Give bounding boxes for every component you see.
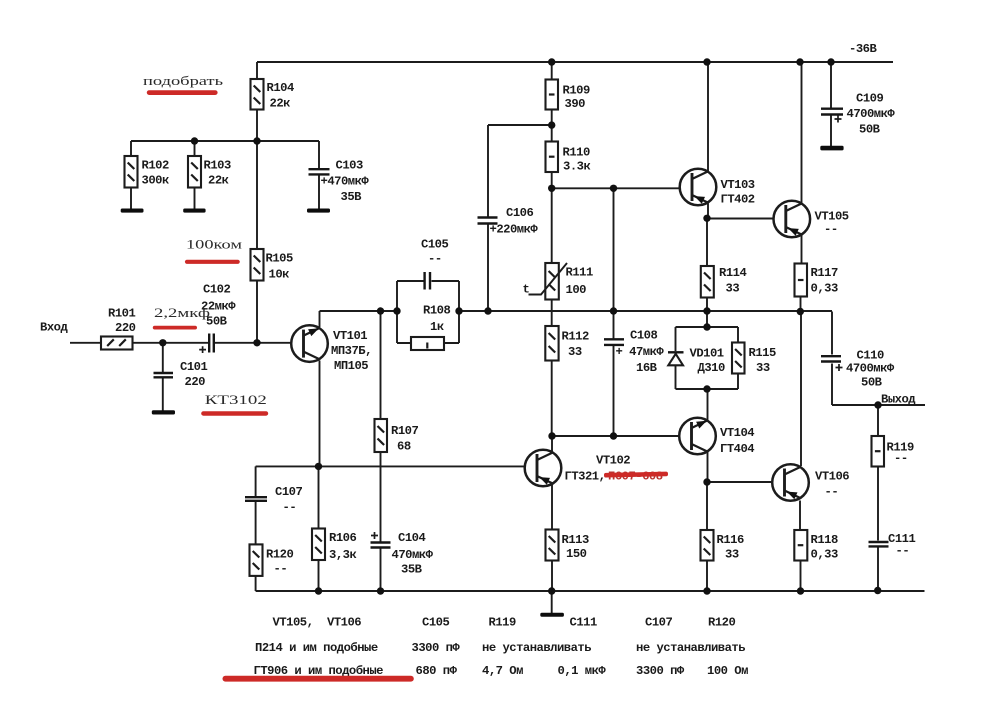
- svg-text:VT105, VT106: VT105, VT106: [273, 616, 362, 630]
- svg-text:100ком: 100ком: [186, 237, 242, 251]
- wire R108 C105 loop: [397, 281, 459, 343]
- svg-text:--: --: [283, 501, 297, 515]
- wire R104 bottom to node: [256, 110, 258, 142]
- ground C103: [307, 209, 330, 213]
- svg-text:не устанавливать: не устанавливать: [482, 641, 591, 655]
- svg-text:R119: R119: [489, 616, 516, 630]
- svg-text:50В: 50В: [859, 123, 881, 137]
- svg-text:C105: C105: [422, 616, 449, 630]
- svg-text:C103: C103: [336, 159, 363, 173]
- resistor R112: [545, 326, 558, 361]
- wire R116 leads: [706, 482, 708, 591]
- wire R111 to R112: [551, 300, 553, 327]
- resistor R119: [872, 436, 885, 467]
- wire C104 bottom: [380, 549, 382, 592]
- svg-text:--: --: [825, 485, 839, 499]
- svg-text:3.3к: 3.3к: [563, 160, 590, 174]
- wire R104 top to rail: [256, 62, 258, 79]
- wire VT103 collector to rail: [707, 62, 709, 171]
- wire C103 leads: [318, 141, 320, 210]
- wire R110 bottom: [551, 172, 553, 188]
- node R114 bottom: [703, 307, 710, 314]
- ground R102: [121, 209, 144, 213]
- svg-text:300к: 300к: [142, 174, 169, 188]
- svg-text:3300 пФ: 3300 пФ: [412, 641, 461, 655]
- svg-text:1к: 1к: [430, 320, 444, 334]
- svg-text:68: 68: [397, 440, 411, 454]
- resistor R108: [411, 337, 444, 350]
- svg-text:4700мкФ: 4700мкФ: [846, 362, 895, 376]
- wire line y=482 to VT106 base: [707, 481, 772, 483]
- wire R109 R110 between: [551, 110, 553, 142]
- resistor R116: [701, 530, 714, 561]
- svg-text:R115: R115: [749, 346, 776, 360]
- svg-text:R117: R117: [811, 266, 838, 280]
- wire R111 top: [551, 188, 553, 263]
- wire R107 leads: [380, 311, 382, 542]
- wire VT101 collector up: [319, 311, 321, 327]
- svg-text:2,2мкф: 2,2мкф: [154, 306, 210, 320]
- svg-text:VT106: VT106: [815, 470, 849, 484]
- svg-text:R109: R109: [563, 84, 590, 98]
- wire VT103 emitter down: [707, 204, 709, 219]
- node rail VT105: [796, 58, 803, 65]
- resistor R118: [794, 530, 807, 561]
- wire VT105 base line: [707, 218, 774, 220]
- ground C109: [820, 146, 843, 151]
- wire R119 leads: [877, 405, 879, 541]
- svg-text:C111: C111: [570, 616, 597, 630]
- svg-text:R108: R108: [423, 304, 450, 318]
- svg-text:C108: C108: [630, 329, 657, 343]
- node VT103 emitter: [703, 215, 710, 222]
- svg-text:390: 390: [565, 97, 586, 111]
- node VT101 emitter: [315, 463, 322, 470]
- svg-text:ГТ402: ГТ402: [721, 193, 755, 207]
- node VT102 collector: [548, 432, 555, 439]
- svg-text:3300 пФ: 3300 пФ: [636, 664, 685, 678]
- node C106 bottom: [484, 307, 491, 314]
- node rail R118: [797, 587, 804, 594]
- wire VT102 base line y=466: [256, 465, 526, 467]
- svg-text:C110: C110: [857, 349, 884, 363]
- wire C111 bottom: [877, 548, 879, 591]
- wire VT102 ground stub: [551, 591, 553, 613]
- svg-text:R118: R118: [811, 533, 838, 547]
- wire mid line y=311 left part: [320, 310, 398, 312]
- svg-text:VT102: VT102: [596, 454, 630, 468]
- node C108 mid: [610, 307, 617, 314]
- wire C102 to VT101 base: [215, 342, 292, 344]
- node VD101 top: [703, 323, 710, 330]
- resistor R114: [701, 266, 714, 298]
- svg-text:100 Ом: 100 Ом: [707, 664, 748, 678]
- svg-text:R113: R113: [562, 533, 589, 547]
- svg-text:П214 и им подобные: П214 и им подобные: [255, 640, 378, 655]
- resistor R110: [546, 142, 559, 173]
- svg-text:22к: 22к: [208, 174, 229, 188]
- wire VT101 emitter down: [319, 361, 321, 467]
- wire VT104 emitter down: [707, 452, 709, 483]
- svg-text:VT103: VT103: [721, 178, 755, 192]
- capacitor C109: [821, 109, 843, 115]
- svg-text:C102: C102: [203, 283, 230, 297]
- svg-text:50В: 50В: [861, 376, 883, 390]
- wire VT102 collector: [551, 436, 553, 452]
- wire C110 column: [831, 312, 833, 406]
- svg-text:3,3к: 3,3к: [329, 548, 356, 562]
- wire R112 bottom: [551, 361, 553, 437]
- svg-text:C105: C105: [421, 238, 448, 252]
- wire R101 to C102: [133, 342, 209, 344]
- node R108 right: [455, 307, 462, 314]
- svg-text:R103: R103: [204, 159, 231, 173]
- wire R106 leads: [318, 466, 320, 591]
- svg-text:+220мкФ: +220мкФ: [490, 223, 539, 237]
- resistor R103: [188, 156, 201, 188]
- capacitor C111: [869, 542, 889, 546]
- node R107 top: [377, 307, 384, 314]
- wire VT106 collector up: [800, 312, 802, 467]
- wire mid line y=311 right part: [459, 310, 832, 312]
- wire R102 leads: [130, 141, 132, 210]
- transistor VT103: [680, 169, 717, 206]
- wire C109 leads: [830, 62, 832, 146]
- capacitor C106: [478, 218, 498, 224]
- svg-text:C106: C106: [506, 206, 533, 220]
- svg-text:R114: R114: [719, 266, 746, 280]
- svg-text:Вход: Вход: [40, 321, 68, 335]
- node rail R106: [315, 587, 322, 594]
- thermistor R111: [529, 263, 568, 300]
- wire C106 bottom: [487, 225, 489, 312]
- svg-text:VT105: VT105: [815, 210, 849, 224]
- svg-text:4,7 Ом: 4,7 Ом: [482, 664, 523, 678]
- svg-text:ГТ404: ГТ404: [720, 442, 754, 456]
- wire VD101 box outline: [676, 327, 739, 389]
- node C106 top: [548, 121, 555, 128]
- node rail VT103: [703, 58, 710, 65]
- svg-text:0,33: 0,33: [811, 548, 838, 562]
- svg-text:R112: R112: [562, 330, 589, 344]
- svg-text:22к: 22к: [270, 97, 291, 111]
- resistor R120: [250, 544, 263, 576]
- svg-text:подобрать: подобрать: [143, 74, 224, 88]
- svg-text:VT104: VT104: [720, 426, 754, 440]
- wire input to R101: [70, 342, 101, 344]
- svg-text:10к: 10к: [269, 268, 290, 282]
- resistor R102: [125, 156, 138, 188]
- svg-text:ГТ321,: ГТ321,: [565, 470, 606, 484]
- node C101 top: [159, 339, 166, 346]
- capacitor C103: [309, 169, 330, 174]
- svg-text:R120: R120: [708, 616, 735, 630]
- ground C101: [152, 410, 175, 414]
- resistor R106: [312, 529, 325, 561]
- svg-text:100: 100: [566, 283, 587, 297]
- transistor VT102: [525, 450, 562, 487]
- transistor VT104: [679, 418, 716, 455]
- svg-text:--: --: [896, 544, 910, 558]
- ground VT102 emitter: [540, 613, 564, 617]
- capacitor C101: [154, 373, 174, 377]
- node C108 top: [610, 185, 617, 192]
- wire VT106 emitter to R118: [799, 501, 801, 531]
- wire VT105 emitter to R117: [801, 236, 803, 264]
- node rail C104: [377, 587, 384, 594]
- svg-text:R105: R105: [266, 252, 293, 266]
- svg-text:+470мкФ: +470мкФ: [321, 175, 370, 189]
- node R108 left: [393, 307, 400, 314]
- svg-text:C107: C107: [275, 485, 302, 499]
- wire C101 leads: [162, 343, 164, 411]
- svg-text:35В: 35В: [401, 563, 423, 577]
- svg-text:+ 47мкФ: + 47мкФ: [616, 345, 665, 359]
- svg-text:220: 220: [185, 375, 206, 389]
- ground R103: [183, 209, 205, 213]
- svg-text:ГТ906 и им подобные: ГТ906 и им подобные: [254, 663, 384, 678]
- node rail C111: [874, 587, 881, 594]
- svg-text:220: 220: [115, 321, 136, 335]
- capacitor C110 plus: [836, 364, 843, 371]
- wire R118 bottom: [800, 561, 802, 592]
- node output: [874, 401, 881, 408]
- svg-text:C101: C101: [180, 360, 207, 374]
- svg-text:КТ3102: КТ3102: [205, 393, 267, 407]
- node R110 bottom: [548, 185, 555, 192]
- svg-text:0,1 мкФ: 0,1 мкФ: [558, 664, 607, 678]
- svg-text:4700мкФ: 4700мкФ: [847, 107, 896, 121]
- capacitor C110: [821, 356, 841, 361]
- wire R117 bottom: [800, 297, 802, 312]
- node R103 top: [191, 137, 198, 144]
- table red underline: [223, 676, 414, 682]
- transistor VT106: [772, 464, 809, 501]
- wire bias node horizontal y=141: [131, 140, 319, 142]
- wire R105 leads: [256, 141, 258, 343]
- svg-text:33: 33: [726, 282, 740, 296]
- wire line y=188 to VT103 base: [552, 187, 680, 189]
- svg-text:33: 33: [725, 548, 739, 562]
- resistor R107: [375, 419, 388, 452]
- svg-text:--: --: [428, 252, 442, 266]
- capacitor C108: [604, 339, 624, 345]
- wire C106 top link: [488, 125, 552, 217]
- svg-text:R107: R107: [391, 424, 418, 438]
- svg-text:R120: R120: [266, 548, 293, 562]
- capacitor C104 plus: [371, 532, 378, 539]
- wire C108 column lower: [613, 346, 615, 436]
- wire R103 leads: [194, 141, 196, 210]
- wire VT104 collector up: [707, 389, 709, 421]
- svg-text:Выход: Выход: [881, 393, 916, 407]
- resistor R101: [101, 337, 133, 350]
- node R105 bottom: [253, 339, 260, 346]
- node rail R116: [703, 587, 710, 594]
- wire VT102 emitter to R113: [551, 484, 553, 530]
- svg-text:470мкФ: 470мкФ: [392, 548, 434, 562]
- node R117 bottom: [797, 308, 804, 315]
- transistor VT105: [774, 201, 811, 238]
- resistor R104: [251, 79, 264, 110]
- svg-text:VT101: VT101: [333, 329, 367, 343]
- wire R114 leads: [706, 218, 708, 327]
- capacitor C107: [245, 497, 267, 501]
- node rail R109: [548, 58, 555, 65]
- svg-text:16В: 16В: [636, 361, 658, 375]
- transistor VT101: [291, 325, 328, 362]
- svg-text:0,33: 0,33: [811, 282, 838, 296]
- wire R109 top to rail: [551, 62, 553, 80]
- svg-text:C107: C107: [645, 616, 672, 630]
- svg-text:R102: R102: [142, 159, 169, 173]
- svg-text:VD101: VD101: [690, 347, 724, 361]
- wire bottom rail: [256, 590, 925, 592]
- svg-text:R116: R116: [717, 533, 744, 547]
- wire VT105 collector to rail: [801, 62, 803, 203]
- svg-text:C109: C109: [856, 92, 883, 106]
- capacitor C102: [209, 334, 214, 353]
- svg-text:R111: R111: [566, 266, 593, 280]
- node R104 bias: [253, 137, 260, 144]
- resistor R115: [732, 343, 745, 374]
- resistor R117: [795, 264, 808, 297]
- node C108 bottom: [610, 432, 617, 439]
- svg-text:R106: R106: [329, 531, 356, 545]
- svg-text:R104: R104: [267, 81, 294, 95]
- capacitor C105: [425, 272, 430, 290]
- resistor R113: [546, 530, 559, 561]
- svg-text:МП37Б,: МП37Б,: [331, 344, 372, 358]
- wire C107 R120 chain: [255, 466, 257, 591]
- node rail R113: [548, 587, 555, 594]
- svg-text:R110: R110: [563, 146, 590, 160]
- svg-text:R101: R101: [108, 307, 135, 321]
- svg-text:--: --: [274, 562, 288, 576]
- diode VD101: [668, 352, 684, 365]
- node VT104 emitter: [703, 478, 710, 485]
- svg-text:-36В: -36В: [849, 42, 877, 56]
- capacitor C109 plus: [835, 116, 842, 123]
- svg-text:C104: C104: [398, 531, 425, 545]
- wire line y=436 to VT104 base: [552, 435, 680, 437]
- svg-text:t: t: [523, 283, 530, 297]
- wire C108 column upper: [613, 188, 615, 338]
- capacitor C102 plus: [199, 346, 206, 353]
- resistor R105: [251, 249, 264, 281]
- svg-text:Д310: Д310: [698, 361, 725, 375]
- resistor R109: [546, 80, 559, 110]
- node rail C109: [827, 58, 834, 65]
- svg-text:33: 33: [756, 361, 770, 375]
- capacitor C104: [371, 543, 391, 548]
- svg-text:--: --: [824, 223, 838, 237]
- wire R113 to rail: [551, 561, 553, 592]
- wire top -36V rail: [257, 61, 893, 63]
- svg-text:680 пФ: 680 пФ: [416, 664, 458, 678]
- svg-text:МП105: МП105: [334, 359, 368, 373]
- svg-text:33: 33: [568, 345, 582, 359]
- svg-text:35В: 35В: [341, 190, 363, 204]
- node VD101 bottom: [703, 385, 710, 392]
- svg-text:150: 150: [566, 547, 587, 561]
- wire output line: [832, 404, 925, 406]
- svg-text:не устанавливать: не устанавливать: [636, 641, 745, 655]
- svg-text:--: --: [894, 452, 908, 466]
